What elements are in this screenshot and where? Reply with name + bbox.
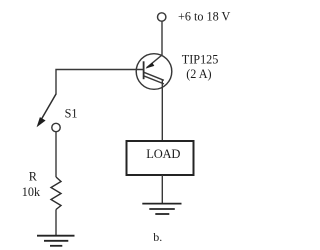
svg-text:b.: b. (153, 230, 162, 244)
svg-text:10k: 10k (22, 185, 41, 199)
svg-text:LOAD: LOAD (146, 147, 180, 161)
svg-text:S1: S1 (65, 107, 78, 121)
svg-text:R: R (29, 170, 38, 184)
svg-text:(2 A): (2 A) (186, 67, 211, 81)
svg-text:+6 to 18 V: +6 to 18 V (178, 10, 231, 24)
svg-text:TIP125: TIP125 (182, 53, 219, 67)
